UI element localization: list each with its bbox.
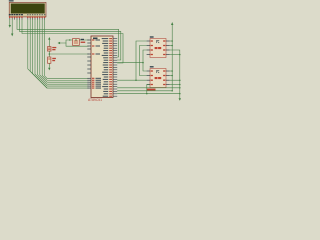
crystal label text bbox=[81, 39, 84, 40]
IC1 pin number boxes bbox=[151, 40, 166, 55]
MCU ref U1 bbox=[93, 38, 98, 40]
wire D4 bus bbox=[37, 19, 88, 84]
IC2 right pin stubs bbox=[166, 71, 170, 85]
wire RW wrap around MCU bbox=[20, 19, 121, 60]
wire IC1 pin3 down to IC2 pin1 bbox=[143, 50, 147, 71]
capacitor C1 value text bbox=[52, 58, 56, 61]
wire VCC to R1 bbox=[48, 39, 50, 46]
LCD pin name labels bbox=[9, 14, 23, 15]
IC1 part text bbox=[155, 47, 158, 49]
LCD pin stubs bbox=[10, 18, 45, 20]
node bottom bus 2 rail A bbox=[171, 90, 173, 92]
LCD ref label LCD1 bbox=[9, 0, 14, 1]
MCU left pin numbers bbox=[92, 39, 94, 88]
node rail B IC2 pin7 bbox=[179, 79, 181, 81]
wire VEE down bbox=[11, 19, 13, 33]
power terminal VCC rail A bbox=[171, 22, 173, 25]
IC1 internal glyph bbox=[157, 40, 160, 43]
node RST junction bbox=[49, 53, 51, 55]
MCU left pin names bbox=[96, 40, 102, 89]
capacitor C1 bbox=[48, 57, 51, 63]
wire IC1 pin6 to rail A bbox=[170, 45, 173, 47]
MCU right pin stubs bbox=[113, 39, 117, 97]
resistor R1 bbox=[48, 47, 52, 52]
wire node to MCU RST bbox=[49, 53, 88, 55]
wire bottom bus 2 bbox=[117, 90, 172, 92]
wire IC2 pin4 drop to bottom bus bbox=[147, 85, 150, 94]
wire D1 bus bbox=[30, 19, 47, 88]
IC2 internal glyph bbox=[157, 70, 160, 73]
IC1 U2 body bbox=[150, 39, 166, 58]
wire D0 bus bbox=[28, 19, 47, 88]
resistor R1 value text bbox=[52, 47, 56, 50]
IC1 ref text bbox=[150, 36, 154, 37]
wire VSS to ground bbox=[9, 19, 11, 25]
IC2 left pin stubs bbox=[147, 71, 150, 85]
wire D2 bus bbox=[33, 19, 89, 88]
wire RS wrap around MCU bbox=[17, 19, 119, 57]
wire IC2 pin5 to rail A bbox=[170, 70, 173, 72]
node rail B pin8 bbox=[179, 54, 181, 56]
MCU left pin stubs bbox=[87, 40, 91, 88]
ground arrow below LCD pin2 bbox=[11, 34, 13, 37]
ground arrow reset chain bbox=[48, 68, 50, 71]
node crystal top lead bbox=[69, 39, 70, 40]
LCD LCD1 body bbox=[9, 2, 46, 17]
ground arrow rail B bbox=[179, 98, 181, 101]
svg-text:AT89C51: AT89C51 bbox=[88, 98, 102, 102]
IC2 ref text bbox=[150, 66, 154, 67]
node at x143 bbox=[142, 62, 144, 64]
wire R1 to node bbox=[48, 51, 50, 57]
ground arrow below LCD pin1 bbox=[9, 25, 11, 28]
node rail B IC2 pin8 bbox=[179, 84, 181, 86]
terminal arrow left of crystal bbox=[58, 42, 61, 44]
wire IC2 pin7 to rail B bbox=[170, 79, 180, 81]
node at x136 bbox=[135, 79, 137, 81]
wire bottom bus 1 bbox=[117, 87, 180, 89]
IC1 right pin stubs bbox=[166, 41, 170, 55]
IC2 U3 body bbox=[150, 69, 166, 88]
wire D3 bus bbox=[35, 19, 89, 86]
IC2 part text bbox=[155, 77, 158, 79]
node IC2 pin4 bus3 bbox=[146, 93, 148, 95]
LCD pin number boxes bbox=[9, 16, 45, 18]
IC1 left pin stubs bbox=[147, 41, 150, 55]
wire IC1 pin1 down to IC2 pin3 bbox=[136, 41, 147, 80]
IC2 label below bbox=[147, 89, 156, 91]
wire IC2 pin8 to rail B bbox=[170, 84, 180, 86]
wire crystal lower branch bbox=[66, 43, 89, 46]
wire D6 bus bbox=[42, 19, 88, 80]
node bottom bus 1 rail B bbox=[179, 87, 181, 89]
wire IC1 pin5 to rail A bbox=[170, 40, 173, 42]
crystal X1 bbox=[73, 39, 80, 46]
wire IC1 pin8 to rail B bbox=[170, 54, 180, 56]
wire C1 to ground bbox=[48, 63, 50, 68]
wire E wrap around MCU bbox=[22, 19, 123, 63]
node crystal second lead bbox=[75, 39, 76, 40]
IC2 pin number boxes bbox=[151, 70, 166, 85]
wire IC1 pin2 down to IC2 pin2 bbox=[140, 46, 147, 76]
wire D5 bus bbox=[40, 19, 89, 82]
wire bottom bus 3 bbox=[117, 93, 180, 95]
node bottom bus 3 rail B bbox=[179, 93, 181, 95]
wire MCU to node x136 bbox=[117, 79, 136, 81]
wire terminal to crystal bracket bbox=[60, 40, 89, 43]
MCU right pin names bbox=[102, 38, 109, 97]
wire MCU P2 to IC2 col via x143 bbox=[117, 62, 143, 64]
MCU right pin numbers bbox=[109, 38, 112, 97]
node rail A pin6 bbox=[171, 45, 173, 47]
node rail A IC2 pin5 bbox=[171, 70, 173, 72]
wire D7 bus bbox=[45, 19, 89, 78]
node rail A IC2 pin6 bbox=[171, 75, 173, 77]
MCU U1 body bbox=[91, 36, 113, 98]
power terminal VCC reset bbox=[48, 37, 50, 40]
wire IC1 pin7 to rail B bbox=[170, 50, 180, 98]
wire rail A vertical bbox=[171, 25, 173, 91]
node rail A pin5 bbox=[171, 40, 173, 42]
wire IC2 pin6 to rail A bbox=[170, 75, 173, 77]
